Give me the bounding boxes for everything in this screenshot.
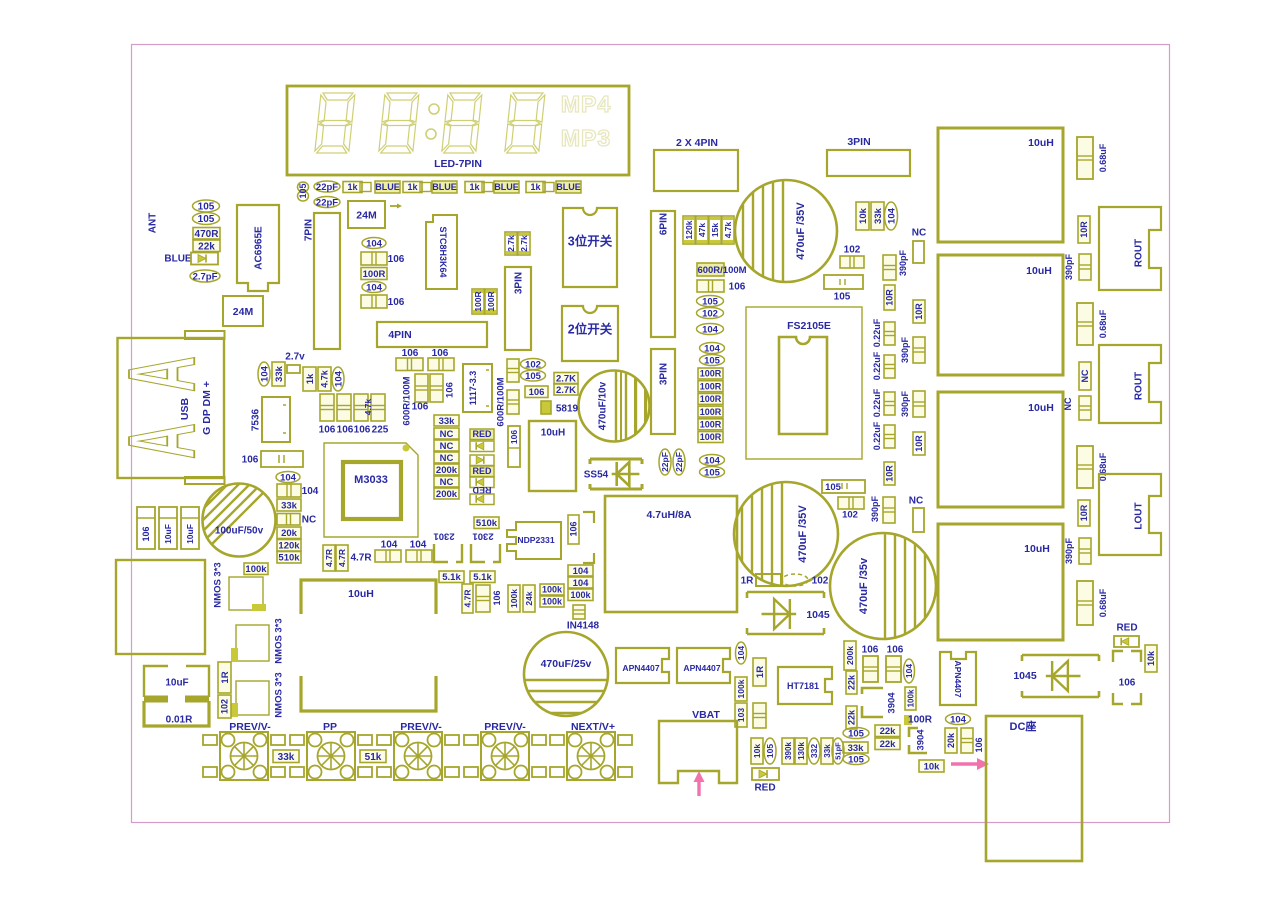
capacitor 105	[843, 754, 869, 765]
svg-text:6PIN: 6PIN	[659, 213, 670, 235]
capacitor 106 (vertical)	[508, 426, 520, 467]
tact switch 5	[567, 732, 615, 780]
svg-text:600R/100M: 600R/100M	[495, 377, 506, 426]
svg-text:BLUE: BLUE	[494, 182, 519, 192]
svg-text:105: 105	[834, 292, 851, 303]
LED RED with arrow	[752, 768, 779, 780]
capacitor 105	[697, 296, 724, 307]
USB contact A lower	[109, 423, 216, 459]
svg-text:106: 106	[141, 526, 151, 541]
capacitor 104	[700, 455, 725, 466]
svg-text:100k: 100k	[542, 597, 563, 607]
svg-text:M3033: M3033	[354, 474, 388, 486]
resistor 33k	[843, 742, 868, 753]
capacitor 470uF/35v electrolytic #3	[830, 533, 936, 639]
resistor NC (vertical)	[1079, 362, 1091, 390]
svg-text:NC: NC	[912, 228, 926, 239]
svg-text:20k: 20k	[946, 732, 956, 748]
svg-text:100R: 100R	[700, 394, 722, 404]
svg-text:105: 105	[848, 754, 865, 765]
svg-text:2.7v: 2.7v	[285, 352, 305, 363]
svg-text:NC: NC	[440, 477, 454, 488]
resistor 200k (vertical)	[844, 641, 856, 670]
resistor 10k (vertical)	[751, 738, 763, 764]
transistor NMOS 3*3 #3	[236, 681, 269, 715]
switch 3位开关	[563, 208, 617, 287]
svg-text:104: 104	[704, 343, 721, 354]
LED RED with arrow	[470, 429, 494, 440]
svg-text:390pF: 390pF	[870, 495, 880, 522]
capacitor 105	[193, 213, 220, 225]
svg-text:104: 104	[302, 486, 319, 497]
svg-text:47k: 47k	[697, 223, 707, 237]
diode IN4148	[573, 605, 585, 619]
svg-text:1R: 1R	[741, 576, 755, 587]
svg-text:10R: 10R	[1079, 504, 1089, 521]
svg-text:10R: 10R	[885, 465, 895, 482]
svg-text:100R: 100R	[700, 407, 722, 417]
svg-text:100R: 100R	[908, 715, 933, 726]
svg-text:NC: NC	[440, 429, 454, 440]
resistor (2.7v)	[287, 365, 300, 373]
svg-text:22pF: 22pF	[316, 182, 338, 193]
svg-text:RED: RED	[472, 429, 492, 439]
svg-text:1R: 1R	[755, 666, 766, 678]
svg-text:120k: 120k	[684, 220, 694, 239]
svg-text:4.7k: 4.7k	[363, 398, 373, 415]
svg-text:USB: USB	[179, 397, 191, 420]
IC 7536	[262, 397, 290, 442]
capacitor 105	[824, 275, 863, 289]
svg-text:390pF: 390pF	[1064, 537, 1074, 564]
IC APN4407 #1	[616, 648, 669, 683]
resistor 100R	[361, 268, 387, 280]
resistor 5.1k	[439, 571, 464, 583]
svg-text:106: 106	[388, 297, 405, 308]
svg-text:390k: 390k	[784, 742, 793, 760]
svg-text:4.7R: 4.7R	[463, 590, 473, 608]
svg-text:0.22uF: 0.22uF	[872, 421, 882, 450]
svg-text:1R: 1R	[220, 671, 231, 683]
svg-text:104: 104	[410, 540, 427, 551]
capacitor 105 pair (rotated)	[298, 182, 309, 192]
svg-text:106: 106	[388, 254, 405, 265]
svg-text:BLUE: BLUE	[375, 182, 400, 192]
IC FS2105E outline	[746, 307, 862, 459]
capacitor 10uF (vertical)	[159, 507, 177, 549]
capacitor 390pF (vertical)	[1079, 538, 1091, 564]
svg-text:22pF: 22pF	[316, 197, 338, 208]
svg-text:106: 106	[354, 425, 371, 436]
svg-text:470uF /35V: 470uF /35V	[797, 505, 809, 563]
capacitor 104	[362, 282, 386, 293]
svg-text:2.7k: 2.7k	[519, 235, 529, 252]
svg-text:102: 102	[812, 576, 829, 587]
svg-text:105: 105	[525, 371, 542, 382]
svg-text:104: 104	[573, 566, 590, 577]
resistor 22k	[875, 725, 900, 737]
diode 5819	[541, 401, 551, 414]
svg-text:22pF: 22pF	[660, 452, 670, 472]
resistor 10R (vertical)	[884, 285, 895, 310]
resistor 22k (vertical)	[846, 671, 857, 694]
wire arrow from 24M	[390, 205, 400, 207]
svg-text:10uH: 10uH	[348, 588, 374, 600]
resistor 20k	[277, 527, 301, 539]
svg-text:LED-7PIN: LED-7PIN	[434, 158, 482, 170]
LED arrow box	[470, 455, 494, 466]
resistor 22k	[875, 738, 900, 750]
svg-text:100k: 100k	[542, 585, 563, 595]
svg-text:100k: 100k	[245, 564, 267, 575]
svg-text:1k: 1k	[305, 373, 316, 384]
LED BLUE label	[375, 181, 400, 193]
svg-text:22k: 22k	[880, 739, 897, 750]
inductor 10uH #2	[938, 255, 1063, 375]
VBAT pink arrow	[697, 779, 700, 796]
svg-text:470uF /35V: 470uF /35V	[795, 202, 807, 260]
capacitor NC	[277, 514, 300, 526]
svg-text:24k: 24k	[524, 591, 534, 605]
svg-text:33k: 33k	[873, 207, 884, 224]
svg-text:APN4407: APN4407	[683, 663, 720, 673]
LED BLUE label	[494, 181, 519, 193]
svg-text:3位开关: 3位开关	[568, 234, 613, 249]
capacitor 22pF	[314, 197, 340, 208]
svg-text:4.7k: 4.7k	[723, 221, 733, 238]
resistor 1k (vertical)	[303, 367, 316, 391]
resistor 100k	[540, 596, 564, 607]
capacitor 104 (rotated)	[885, 202, 898, 230]
svg-text:2位开关: 2位开关	[568, 322, 613, 337]
capacitor 332 (rotated)	[808, 738, 820, 764]
svg-text:100uF/50v: 100uF/50v	[215, 526, 264, 537]
svg-text:1k: 1k	[469, 182, 480, 192]
IC AC6965E	[237, 205, 279, 291]
svg-text:106: 106	[444, 382, 455, 398]
svg-text:NC: NC	[909, 496, 923, 507]
svg-text:4.7R: 4.7R	[350, 553, 372, 564]
resistor 100k (vertical)	[508, 585, 520, 612]
svg-text:104: 104	[886, 207, 897, 224]
LED RED with arrow	[470, 466, 494, 477]
svg-text:102: 102	[220, 699, 230, 714]
svg-text:0.22uF: 0.22uF	[872, 351, 882, 380]
resistor 2.7K	[554, 384, 578, 395]
svg-text:2.7pF: 2.7pF	[193, 271, 218, 282]
7-segment digit 1	[315, 93, 355, 153]
svg-text:4.7R: 4.7R	[324, 549, 334, 567]
resistor 10R (vertical)	[1078, 216, 1090, 243]
svg-text:33k: 33k	[823, 744, 832, 758]
resistor 51k	[360, 750, 386, 763]
filter 600R/100M label	[697, 263, 724, 276]
svg-text:1k: 1k	[407, 182, 418, 192]
capacitor 51pF (rotated)	[832, 738, 844, 764]
svg-text:NC: NC	[1080, 369, 1090, 382]
capacitor 104	[568, 577, 593, 588]
svg-text:APN4407: APN4407	[953, 660, 963, 697]
svg-text:10uF: 10uF	[185, 524, 195, 544]
svg-text:33k: 33k	[439, 416, 456, 427]
svg-text:20k: 20k	[281, 528, 298, 539]
capacitor 100uF/50v electrolytic	[203, 484, 276, 557]
svg-text:100R: 100R	[700, 432, 722, 442]
svg-text:5.1k: 5.1k	[442, 572, 461, 583]
regulator 1117-3.3	[463, 364, 492, 412]
inductor 10uH (small)	[529, 421, 576, 491]
capacitor (vertical)	[753, 703, 766, 728]
capacitor 10uF/0.01R module	[144, 666, 209, 726]
svg-text:104: 104	[904, 664, 914, 678]
resistor NC	[434, 440, 459, 451]
svg-text:15k: 15k	[710, 223, 720, 237]
svg-text:10k: 10k	[924, 761, 941, 772]
svg-text:PP: PP	[323, 721, 337, 733]
resistor 200k	[434, 488, 459, 499]
capacitor 104	[946, 714, 971, 725]
svg-text:33k: 33k	[848, 743, 865, 754]
switch 2位开关	[562, 306, 618, 361]
capacitor 106	[697, 280, 724, 292]
IC APN4407 (vertical)	[940, 652, 976, 705]
connector DC座	[986, 716, 1082, 861]
svg-text:600R/100M: 600R/100M	[697, 265, 746, 276]
resistor 33k	[277, 499, 301, 511]
svg-text:200k: 200k	[845, 646, 855, 665]
svg-text:1045: 1045	[806, 609, 830, 621]
resistor 100k (vertical)	[905, 687, 916, 710]
capacitor 105 (rotated)	[764, 738, 776, 764]
svg-text:PREV/V-: PREV/V-	[229, 721, 271, 733]
header 3PIN (vertical)	[505, 267, 531, 350]
svg-text:105: 105	[298, 183, 308, 198]
resistor 4.7R (vertical)	[323, 545, 335, 571]
resistor 1k	[526, 182, 545, 193]
svg-text:1k: 1k	[530, 182, 541, 192]
svg-text:3PIN: 3PIN	[659, 363, 670, 385]
crystal 24M	[223, 296, 263, 326]
svg-text:104: 104	[573, 578, 590, 589]
transistor NMOS 3*3 #2	[236, 625, 269, 661]
svg-text:105: 105	[704, 467, 721, 478]
resistor 10R (vertical)	[884, 462, 895, 485]
inductor 10uH #1	[938, 128, 1063, 242]
svg-text:2301: 2301	[433, 531, 455, 542]
svg-text:100k: 100k	[736, 679, 746, 698]
svg-text:SS54: SS54	[584, 470, 609, 481]
svg-text:5819: 5819	[556, 404, 579, 415]
LED display module LED-7PIN outline	[287, 86, 629, 175]
resistor 10R (vertical)	[913, 300, 925, 323]
svg-text:332: 332	[809, 744, 819, 758]
svg-text:106: 106	[529, 387, 545, 398]
svg-text:390pF: 390pF	[900, 336, 910, 363]
svg-text:4.7R: 4.7R	[337, 549, 347, 567]
capacitor 104	[362, 238, 386, 249]
svg-text:100k: 100k	[906, 689, 915, 707]
svg-text:200k: 200k	[436, 489, 458, 500]
resistor 10R (vertical)	[913, 432, 925, 455]
svg-text:10R: 10R	[885, 289, 895, 306]
svg-text:3904: 3904	[886, 692, 897, 714]
svg-text:10uF: 10uF	[163, 524, 173, 544]
capacitor 106	[361, 295, 387, 308]
inductor 10uH #4	[938, 524, 1063, 640]
svg-text:10R: 10R	[914, 435, 924, 452]
svg-text:102: 102	[702, 308, 718, 319]
capacitor 105	[521, 370, 546, 381]
resistor 10k (vertical)	[856, 202, 869, 230]
svg-text:IN4148: IN4148	[567, 621, 600, 632]
capacitor 104	[700, 343, 725, 354]
resistor 100k	[540, 584, 564, 595]
resistor NC	[434, 476, 459, 487]
svg-text:PREV/V-: PREV/V-	[484, 721, 526, 733]
svg-text:106: 106	[887, 645, 904, 656]
tact switch 4	[481, 732, 529, 780]
svg-text:0.22uF: 0.22uF	[872, 388, 882, 417]
capacitor 102	[838, 497, 864, 509]
transistor 3904 #2	[909, 728, 927, 753]
svg-text:33k: 33k	[281, 500, 298, 511]
capacitor 105	[843, 728, 869, 739]
svg-text:104: 104	[950, 714, 967, 725]
capacitor 106 (vertical)	[137, 507, 155, 549]
svg-text:RED: RED	[472, 466, 492, 476]
svg-text:106: 106	[492, 590, 502, 605]
capacitor 106 (vertical)	[961, 728, 973, 753]
header 3PIN (vertical)	[651, 349, 675, 434]
capacitor 105	[700, 355, 725, 366]
resistor 22k	[193, 240, 220, 252]
tact switch 3	[394, 732, 442, 780]
IC NDP2331	[507, 522, 561, 559]
svg-text:102: 102	[842, 509, 858, 520]
capacitor 390pF (vertical)	[1079, 254, 1091, 280]
svg-text:BLUE: BLUE	[432, 182, 457, 192]
svg-text:0.22uF: 0.22uF	[872, 318, 882, 347]
svg-text:10k: 10k	[752, 744, 762, 758]
svg-text:100R: 100R	[700, 381, 722, 391]
7-segment digit 2	[379, 93, 419, 153]
svg-text:NC: NC	[440, 441, 454, 452]
svg-text:510k: 510k	[476, 518, 498, 529]
svg-text:DC座: DC座	[1010, 719, 1037, 733]
svg-text:510k: 510k	[278, 553, 300, 564]
resistor 4.7R (vertical)	[462, 584, 473, 613]
svg-text:51k: 51k	[365, 752, 382, 763]
svg-text:10uH: 10uH	[541, 428, 565, 439]
resistor 10k (vertical)	[1145, 645, 1157, 672]
svg-text:200k: 200k	[436, 465, 458, 476]
svg-text:225: 225	[372, 425, 389, 436]
resistor 1k	[343, 182, 362, 193]
capacitor 102 (vertical)	[218, 695, 231, 718]
resistor 33k (vertical)	[821, 738, 833, 764]
capacitor 2.7pF	[190, 270, 220, 282]
svg-text:470uF/10v: 470uF/10v	[598, 381, 609, 430]
capacitor row 106 106 106 225	[320, 394, 334, 421]
inductor 10uH (open frame)	[301, 580, 436, 614]
svg-text:104: 104	[704, 455, 721, 466]
svg-text:PREV/V-: PREV/V-	[400, 721, 442, 733]
svg-text:100R: 100R	[363, 269, 386, 280]
LED BLUE label	[432, 181, 457, 193]
svg-text:102: 102	[844, 245, 861, 256]
svg-text:105: 105	[848, 728, 865, 739]
capacitor 470uF/25v electrolytic	[524, 632, 608, 716]
svg-text:102: 102	[525, 359, 541, 370]
svg-text:100R: 100R	[473, 291, 483, 311]
svg-text:22k: 22k	[847, 709, 857, 725]
resistor 100R (vertical)	[472, 289, 484, 314]
resistor 1k	[465, 182, 484, 193]
resistor 2.7k (vertical)	[518, 232, 530, 255]
svg-text:10uH: 10uH	[1028, 137, 1054, 149]
capacitor 22pF	[314, 181, 340, 192]
svg-text:130k: 130k	[797, 742, 806, 760]
svg-text:10k: 10k	[1146, 650, 1156, 666]
svg-text:51pF: 51pF	[834, 742, 843, 760]
resistor NC	[434, 428, 459, 439]
svg-text:106: 106	[862, 645, 879, 656]
svg-text:2.7k: 2.7k	[506, 235, 516, 252]
svg-text:2 X 4PIN: 2 X 4PIN	[676, 137, 718, 149]
capacitor 0.68uF	[1077, 137, 1093, 179]
resistor 4.7R (vertical)	[336, 545, 348, 571]
svg-text:NDP2331: NDP2331	[517, 535, 554, 545]
svg-text:NC: NC	[440, 453, 454, 464]
capacitor 106 brackets	[1113, 651, 1141, 704]
svg-text:NMOS 3*3: NMOS 3*3	[273, 672, 284, 717]
svg-text:4.7k: 4.7k	[320, 369, 330, 388]
IC HT7181	[778, 667, 832, 704]
resistor 100R	[904, 715, 912, 725]
capacitor 106 (vertical)	[568, 515, 579, 544]
LED arrow box	[470, 494, 494, 505]
svg-text:24M: 24M	[356, 209, 377, 221]
svg-text:106: 106	[1119, 678, 1136, 689]
capacitor 470uF/10v electrolytic	[579, 371, 650, 442]
resistor 24k (vertical)	[523, 585, 535, 612]
svg-text:470R: 470R	[195, 229, 220, 240]
7-segment digit 4	[505, 93, 545, 153]
svg-text:NMOS 3*3: NMOS 3*3	[273, 618, 284, 663]
svg-text:5.1k: 5.1k	[473, 572, 492, 583]
header 6PIN (vertical)	[651, 211, 675, 337]
capacitor 104 (rotated)	[258, 362, 270, 386]
resistor 470R	[193, 228, 220, 240]
svg-text:NC: NC	[1063, 397, 1073, 410]
transistor 3904 #1	[862, 688, 883, 717]
colon dots	[429, 104, 439, 114]
diode 1045 #1	[747, 591, 824, 594]
svg-text:105: 105	[825, 482, 842, 493]
svg-text:106: 106	[569, 521, 579, 536]
svg-text:10R: 10R	[914, 303, 924, 320]
svg-text:0.68uF: 0.68uF	[1098, 143, 1108, 172]
svg-text:33k: 33k	[278, 752, 295, 763]
svg-text:1k: 1k	[347, 182, 358, 192]
svg-text:10uH: 10uH	[1026, 265, 1052, 277]
svg-text:3PIN: 3PIN	[514, 272, 525, 294]
svg-text:106: 106	[974, 737, 984, 752]
connector ROUT #2	[1099, 345, 1161, 423]
capacitor 104	[697, 324, 724, 335]
svg-text:4PIN: 4PIN	[388, 329, 411, 341]
svg-text:104: 104	[702, 324, 719, 335]
